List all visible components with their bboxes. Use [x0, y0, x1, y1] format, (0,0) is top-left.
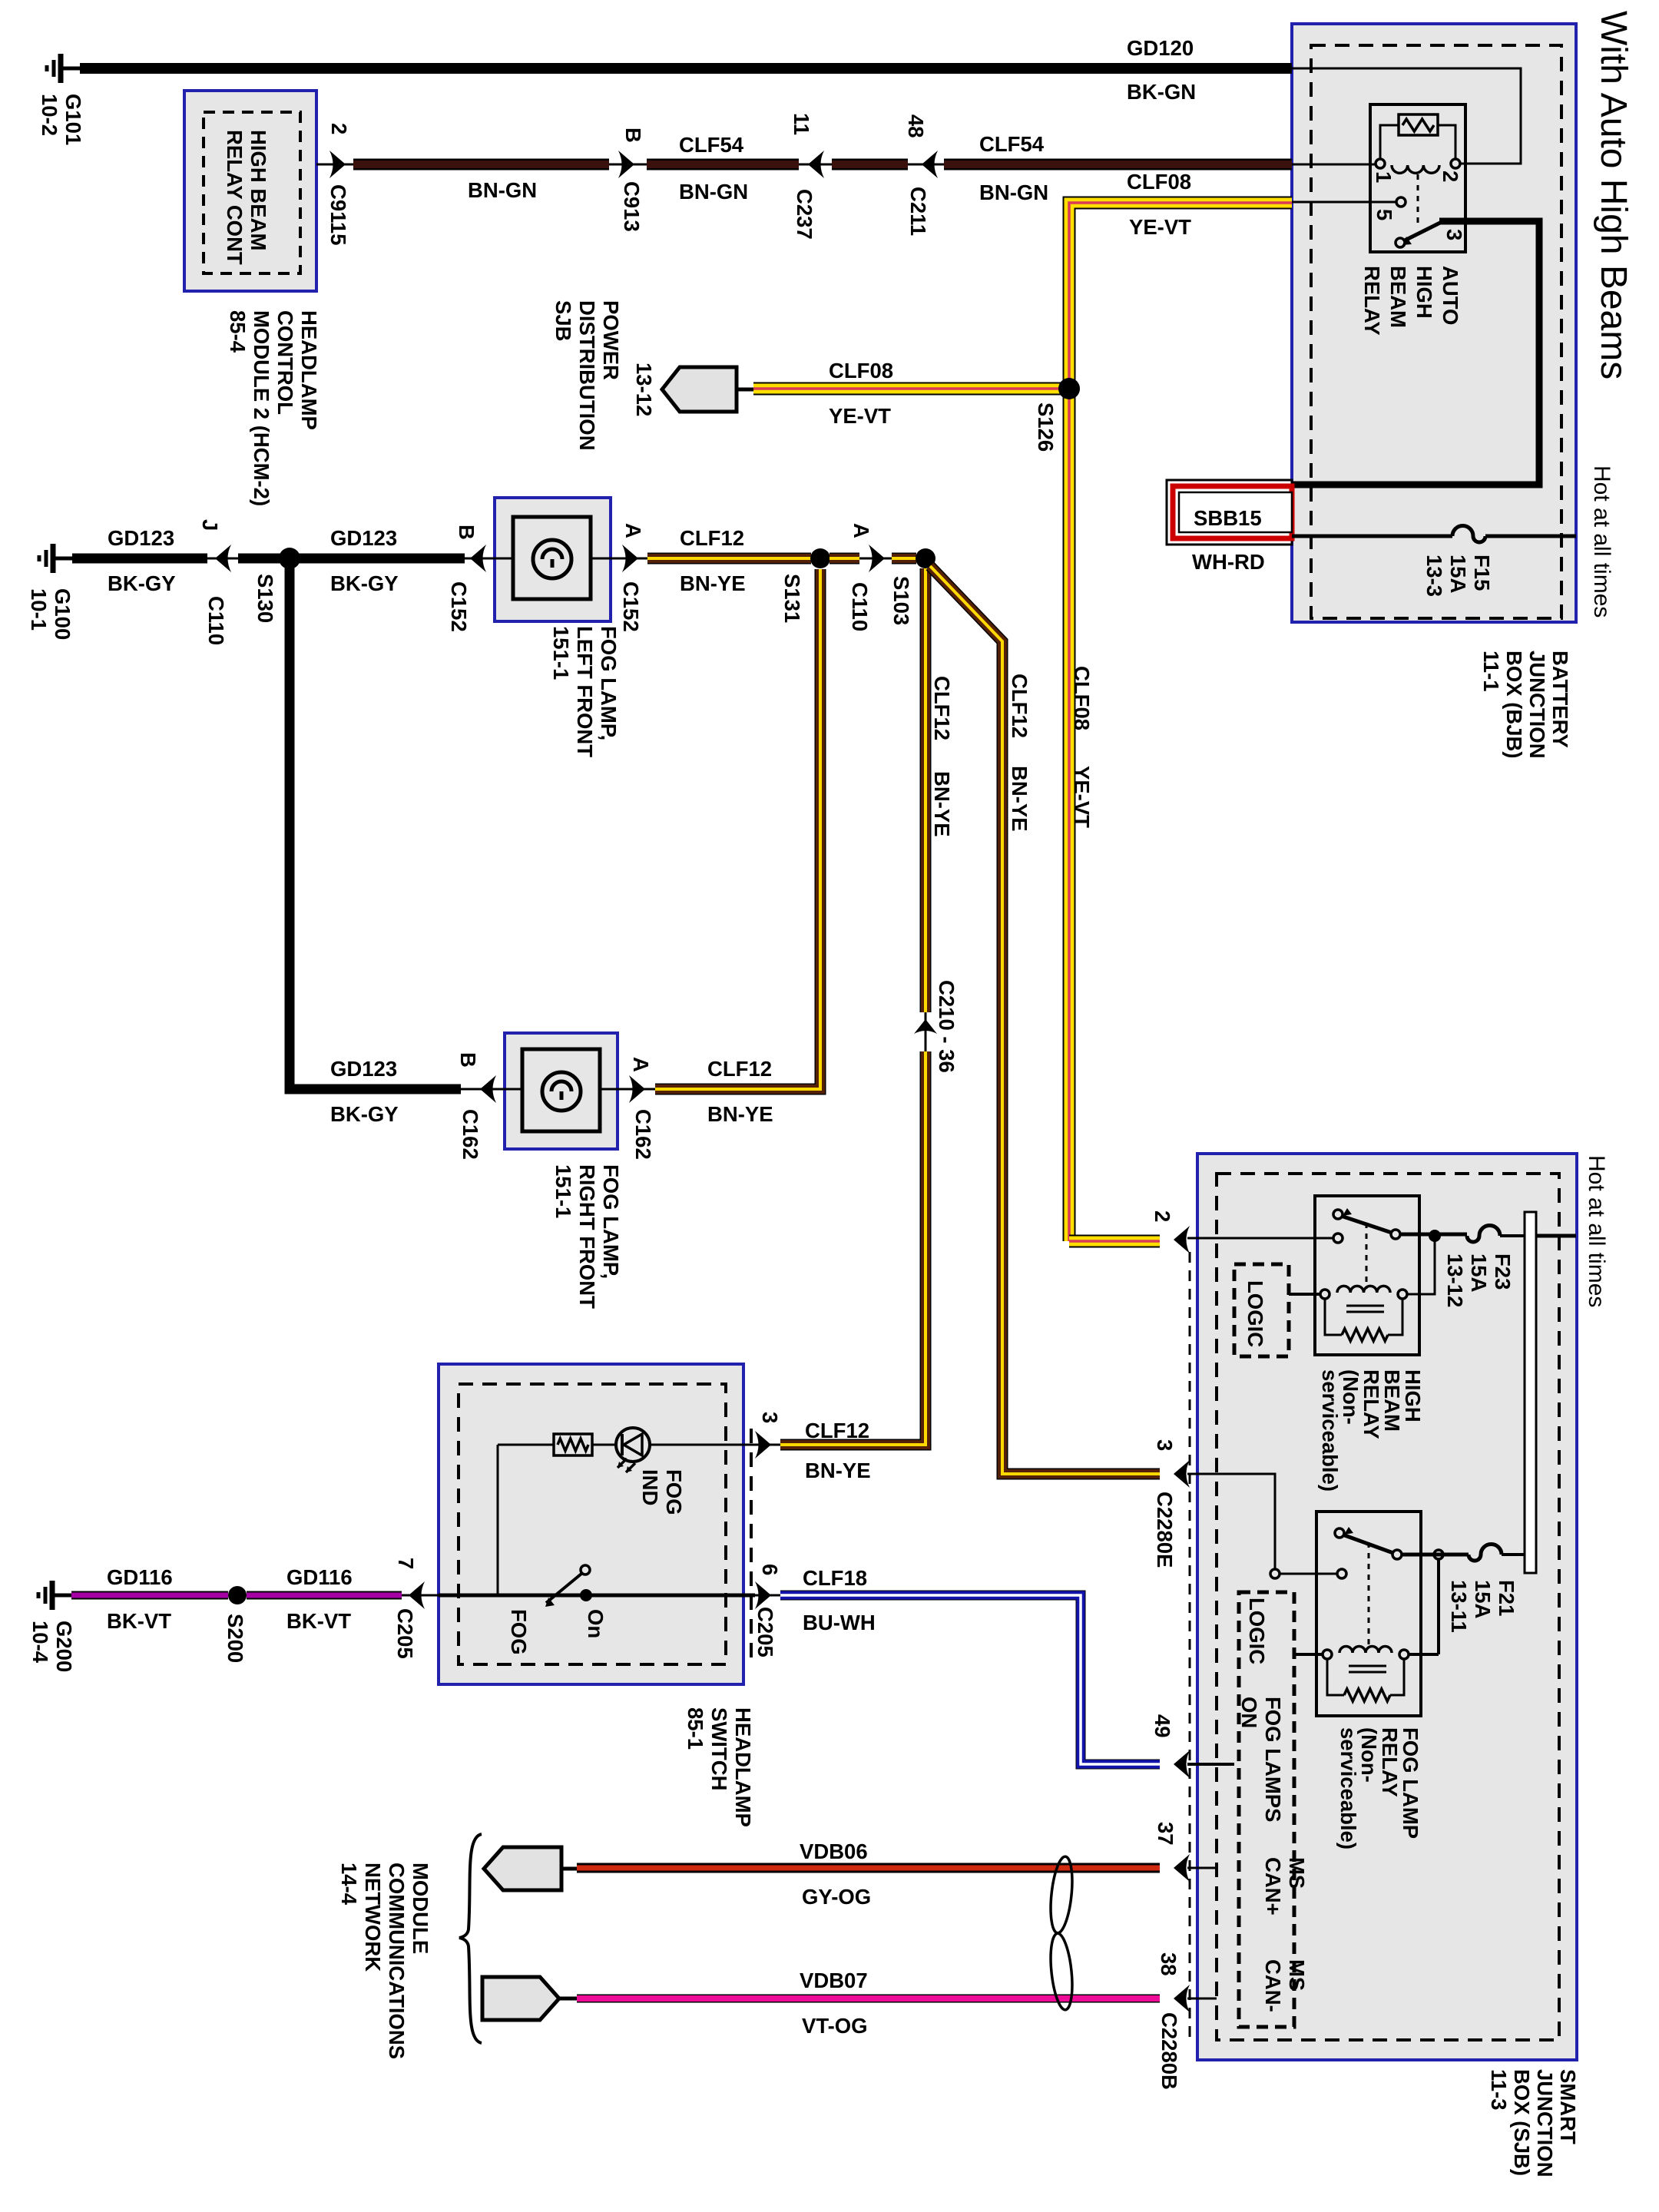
svg-text:GD123: GD123: [330, 1057, 397, 1081]
svg-text:BOX (BJB): BOX (BJB): [1502, 651, 1526, 759]
svg-text:SMART: SMART: [1556, 2069, 1580, 2144]
svg-text:S200: S200: [224, 1614, 247, 1663]
svg-text:G101: G101: [61, 94, 85, 145]
svg-text:NETWORK: NETWORK: [361, 1863, 385, 1972]
svg-text:C2280B: C2280B: [1157, 2012, 1181, 2090]
svg-text:CLF54: CLF54: [979, 132, 1045, 156]
svg-text:BK-VT: BK-VT: [107, 1609, 171, 1633]
svg-text:HEADLAMP: HEADLAMP: [297, 310, 321, 430]
svg-text:C2280E: C2280E: [1153, 1492, 1177, 1568]
svg-text:BK-GY: BK-GY: [330, 571, 399, 595]
svg-text:2: 2: [1151, 1210, 1174, 1222]
svg-text:AUTO: AUTO: [1439, 266, 1462, 325]
svg-text:S103: S103: [889, 576, 913, 625]
svg-text:1: 1: [1372, 171, 1396, 183]
svg-text:14-4: 14-4: [337, 1863, 361, 1906]
svg-text:CLF08: CLF08: [1070, 666, 1094, 730]
svg-text:C205: C205: [753, 1607, 777, 1657]
svg-text:MS: MS: [1285, 1959, 1309, 1991]
svg-text:7: 7: [394, 1558, 418, 1569]
svg-text:13-11: 13-11: [1447, 1580, 1471, 1633]
svg-text:3: 3: [758, 1412, 782, 1423]
svg-text:LEFT FRONT: LEFT FRONT: [573, 626, 597, 757]
svg-text:C210 - 36: C210 - 36: [935, 980, 959, 1073]
svg-text:FOG: FOG: [662, 1469, 686, 1515]
svg-text:YE-VT: YE-VT: [1129, 215, 1191, 239]
svg-text:11: 11: [790, 113, 813, 135]
svg-text:HIGH BEAM: HIGH BEAM: [247, 130, 270, 250]
svg-text:GY-OG: GY-OG: [802, 1885, 871, 1909]
svg-text:BN-GN: BN-GN: [979, 180, 1048, 204]
svg-text:S126: S126: [1034, 402, 1058, 452]
svg-text:11-3: 11-3: [1487, 2069, 1511, 2111]
svg-text:BEAM: BEAM: [1386, 266, 1410, 328]
svg-text:With Auto High Beams: With Auto High Beams: [1593, 11, 1634, 379]
svg-text:CLF12: CLF12: [930, 676, 954, 740]
svg-text:MODULE: MODULE: [409, 1863, 432, 1954]
svg-text:CAN+: CAN+: [1261, 1857, 1285, 1916]
svg-text:85-1: 85-1: [684, 1707, 707, 1750]
svg-text:G100: G100: [51, 588, 75, 640]
svg-text:C152: C152: [619, 581, 643, 632]
svg-text:11-1: 11-1: [1479, 651, 1503, 692]
svg-text:GD116: GD116: [107, 1565, 173, 1589]
svg-text:BOX (SJB): BOX (SJB): [1510, 2069, 1534, 2176]
svg-text:LOGIC: LOGIC: [1243, 1280, 1267, 1347]
svg-text:HIGH: HIGH: [1412, 266, 1436, 319]
svg-text:Hot at all times: Hot at all times: [1589, 465, 1614, 618]
svg-text:SJB: SJB: [551, 300, 575, 342]
svg-text:F23: F23: [1491, 1253, 1515, 1290]
svg-text:C162: C162: [459, 1109, 482, 1160]
svg-text:C110: C110: [848, 582, 872, 631]
svg-text:DISTRIBUTION: DISTRIBUTION: [575, 300, 599, 451]
svg-text:2: 2: [1439, 171, 1462, 182]
svg-text:CLF08: CLF08: [1127, 170, 1191, 194]
svg-text:RELAY: RELAY: [1360, 266, 1384, 336]
svg-text:GD123: GD123: [108, 526, 174, 550]
svg-text:Hot at all times: Hot at all times: [1584, 1155, 1609, 1307]
svg-text:LOGIC: LOGIC: [1245, 1598, 1269, 1664]
svg-text:JUNCTION: JUNCTION: [1525, 651, 1549, 759]
svg-text:SBB15: SBB15: [1194, 506, 1262, 530]
svg-text:FOG LAMP,: FOG LAMP,: [597, 626, 621, 740]
svg-text:YE-VT: YE-VT: [1070, 766, 1094, 828]
svg-text:BK-GY: BK-GY: [330, 1102, 399, 1126]
svg-text:C110: C110: [204, 596, 228, 645]
svg-text:BN-YE: BN-YE: [805, 1459, 871, 1482]
svg-text:C162: C162: [631, 1109, 655, 1160]
svg-text:serviceable): serviceable): [1336, 1727, 1360, 1849]
svg-text:RIGHT FRONT: RIGHT FRONT: [575, 1164, 599, 1309]
svg-text:38: 38: [1157, 1952, 1181, 1976]
svg-text:15A: 15A: [1471, 1580, 1495, 1619]
svg-text:C9115: C9115: [326, 184, 350, 246]
svg-text:CLF08: CLF08: [829, 359, 893, 382]
svg-text:MODULE 2 (HCM-2): MODULE 2 (HCM-2): [250, 310, 273, 506]
svg-text:serviceable): serviceable): [1318, 1369, 1342, 1492]
svg-text:BN-GN: BN-GN: [468, 178, 537, 202]
svg-text:BK-GN: BK-GN: [1127, 80, 1196, 104]
svg-text:15A: 15A: [1446, 555, 1470, 594]
svg-text:CLF12: CLF12: [707, 1057, 772, 1081]
svg-text:On: On: [584, 1609, 608, 1638]
svg-text:CONTROL: CONTROL: [273, 310, 297, 415]
svg-text:GD123: GD123: [330, 526, 397, 550]
svg-text:151-1: 151-1: [549, 626, 573, 680]
svg-text:CLF18: CLF18: [803, 1566, 867, 1590]
svg-text:15A: 15A: [1467, 1253, 1491, 1293]
svg-text:G200: G200: [52, 1621, 76, 1672]
svg-text:FOG LAMP,: FOG LAMP,: [599, 1164, 623, 1279]
svg-text:37: 37: [1154, 1822, 1177, 1846]
svg-text:C237: C237: [793, 189, 816, 240]
svg-text:A: A: [629, 1057, 653, 1072]
svg-text:10-4: 10-4: [28, 1621, 52, 1664]
svg-text:13-12: 13-12: [1443, 1253, 1467, 1307]
svg-text:GD116: GD116: [286, 1565, 353, 1589]
svg-text:2: 2: [327, 123, 351, 134]
svg-text:C913: C913: [620, 181, 644, 232]
svg-text:A: A: [621, 523, 645, 538]
svg-text:BN-YE: BN-YE: [680, 571, 746, 595]
svg-text:WH-RD: WH-RD: [1192, 550, 1265, 574]
svg-text:3: 3: [1442, 229, 1466, 240]
svg-text:3: 3: [1153, 1439, 1177, 1451]
svg-text:B: B: [621, 127, 645, 143]
svg-text:IND: IND: [638, 1469, 662, 1505]
svg-text:CAN-: CAN-: [1261, 1959, 1285, 2012]
svg-text:6: 6: [758, 1564, 782, 1575]
svg-text:BN-YE: BN-YE: [1008, 766, 1031, 832]
svg-text:B: B: [456, 1052, 480, 1068]
svg-text:5: 5: [1373, 209, 1396, 220]
svg-text:J: J: [198, 519, 222, 531]
svg-text:151-1: 151-1: [551, 1164, 575, 1218]
svg-text:GD120: GD120: [1127, 36, 1194, 60]
svg-text:C205: C205: [393, 1608, 417, 1659]
svg-text:ON: ON: [1237, 1697, 1261, 1728]
svg-text:F15: F15: [1470, 555, 1494, 591]
svg-text:MS: MS: [1285, 1857, 1309, 1889]
svg-text:CLF12: CLF12: [1008, 674, 1031, 738]
svg-text:10-2: 10-2: [38, 94, 61, 136]
svg-text:49: 49: [1151, 1714, 1174, 1738]
svg-text:BATTERY: BATTERY: [1548, 651, 1572, 748]
svg-text:JUNCTION: JUNCTION: [1533, 2069, 1557, 2177]
svg-text:COMMUNICATIONS: COMMUNICATIONS: [385, 1863, 409, 2059]
svg-text:SWITCH: SWITCH: [707, 1707, 731, 1790]
svg-text:VDB06: VDB06: [800, 1839, 868, 1863]
svg-text:C152: C152: [447, 581, 471, 632]
svg-text:C211: C211: [906, 187, 930, 236]
svg-text:S131: S131: [780, 574, 804, 623]
svg-text:BU-WH: BU-WH: [803, 1611, 876, 1634]
svg-text:F21: F21: [1495, 1580, 1518, 1616]
svg-text:POWER: POWER: [599, 300, 623, 380]
svg-text:BK-GY: BK-GY: [108, 571, 176, 595]
svg-text:CLF12: CLF12: [805, 1419, 869, 1442]
svg-text:A: A: [849, 523, 873, 538]
svg-text:13-3: 13-3: [1422, 555, 1446, 597]
svg-text:VT-OG: VT-OG: [802, 2014, 868, 2038]
svg-text:FOG LAMPS: FOG LAMPS: [1261, 1697, 1285, 1822]
svg-text:BN-YE: BN-YE: [707, 1102, 773, 1126]
svg-text:13-12: 13-12: [632, 363, 656, 416]
svg-text:BN-YE: BN-YE: [930, 771, 954, 837]
svg-text:YE-VT: YE-VT: [829, 404, 891, 428]
svg-text:B: B: [455, 525, 478, 540]
svg-text:S130: S130: [253, 574, 277, 623]
svg-text:10-1: 10-1: [27, 588, 51, 631]
svg-text:BN-GN: BN-GN: [679, 180, 748, 204]
svg-text:85-4: 85-4: [226, 310, 250, 353]
svg-text:48: 48: [904, 114, 928, 138]
svg-text:FOG: FOG: [507, 1609, 531, 1655]
svg-text:CLF12: CLF12: [680, 526, 744, 550]
svg-text:RELAY CONT: RELAY CONT: [223, 130, 247, 265]
svg-text:BK-VT: BK-VT: [286, 1609, 351, 1633]
svg-text:CLF54: CLF54: [679, 133, 744, 157]
svg-text:VDB07: VDB07: [800, 1969, 868, 1992]
svg-text:HEADLAMP: HEADLAMP: [731, 1707, 755, 1827]
